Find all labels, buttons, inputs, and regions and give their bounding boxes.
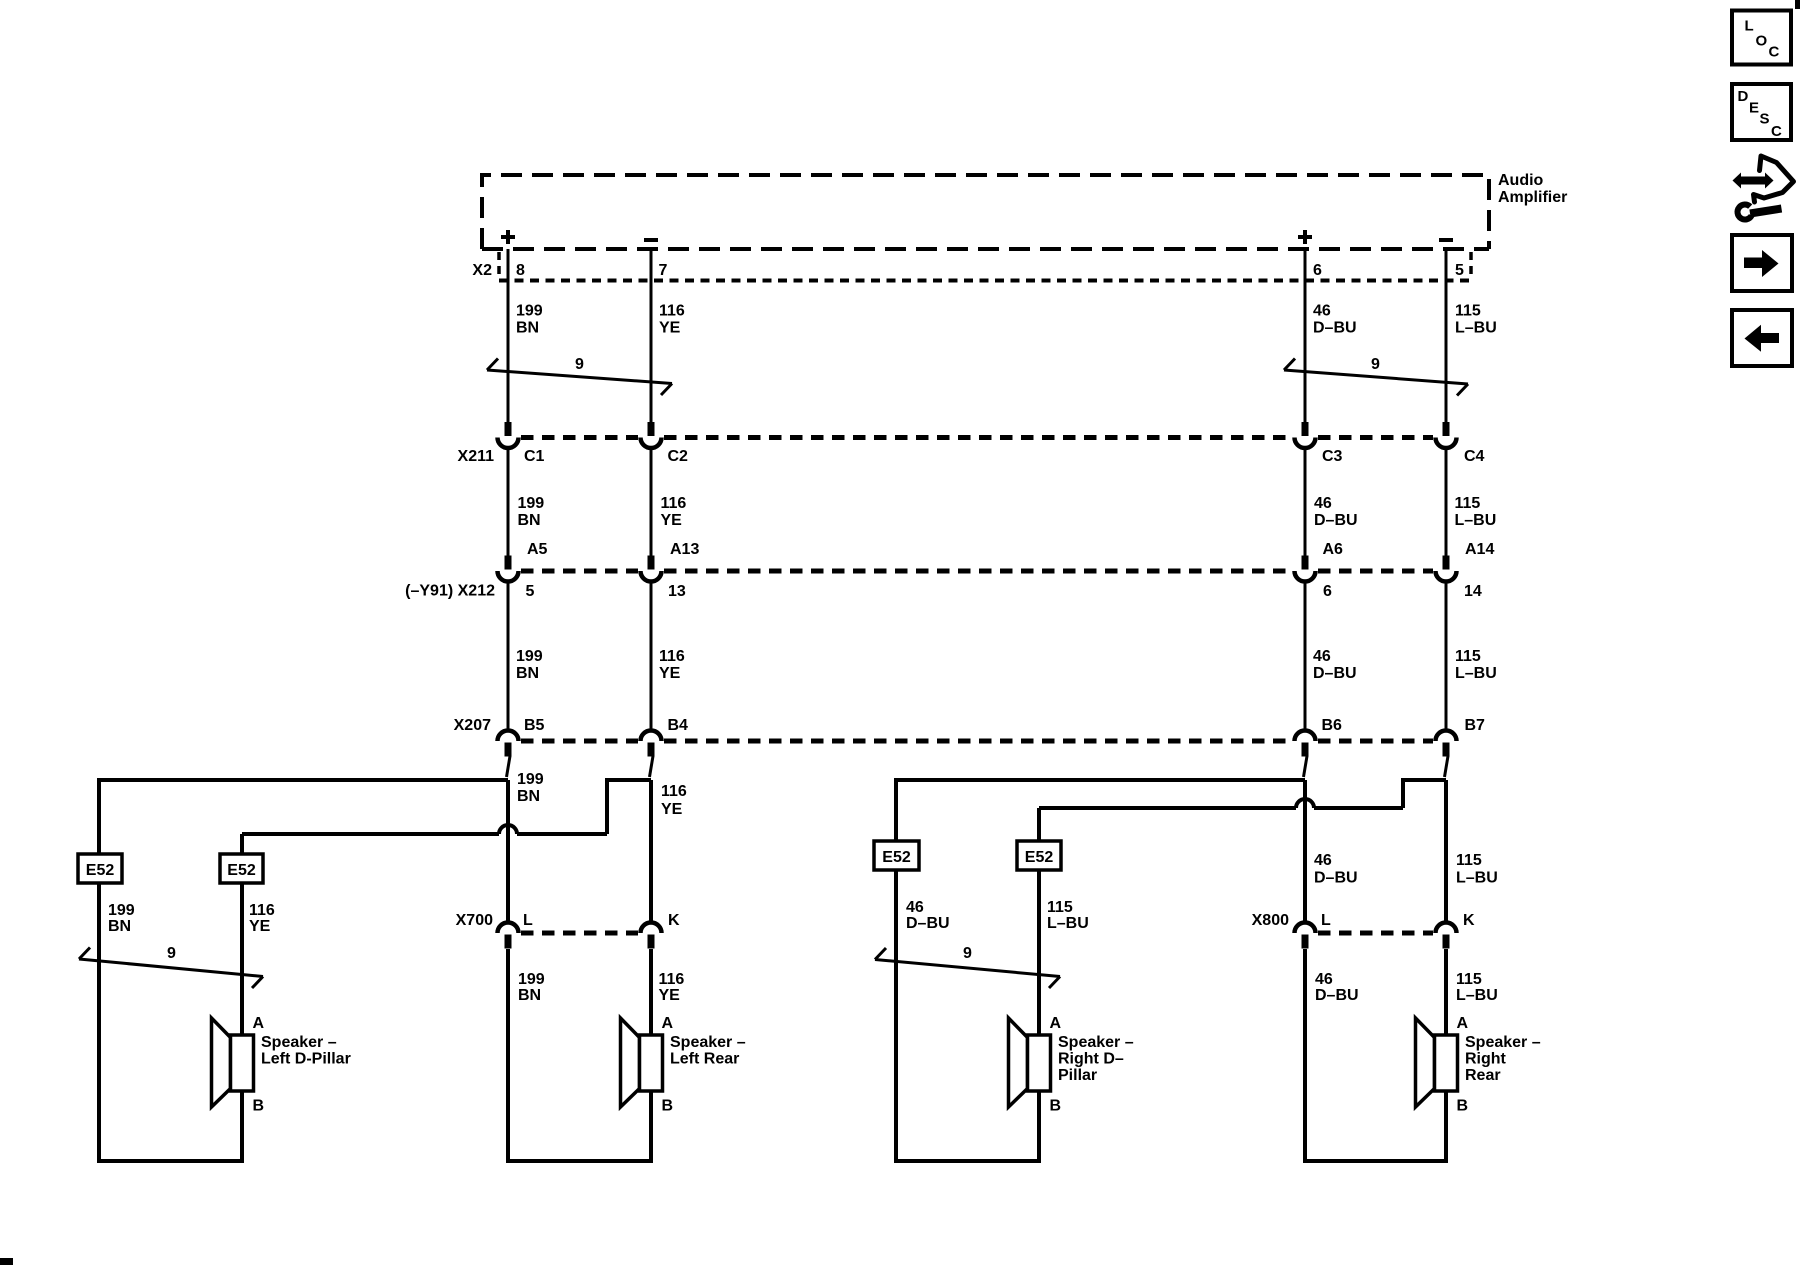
svg-text:L: L — [1745, 18, 1754, 35]
connector X2 — [472, 252, 1471, 281]
X212 terminal A6/6 — [1295, 541, 1344, 600]
svg-text:46: 46 — [1313, 648, 1331, 665]
svg-text:46: 46 — [1315, 971, 1333, 988]
svg-text:B6: B6 — [1322, 717, 1343, 734]
wire 116 YE segment X211 to X212 — [650, 449, 653, 557]
wire label 199 BN (X212-X207) — [516, 648, 543, 682]
wire label 46 D-BU (X211-X212) — [1314, 495, 1358, 529]
connector X207 — [454, 717, 1433, 741]
wire label 199 BN (below B5) — [517, 771, 544, 805]
svg-text:B7: B7 — [1465, 717, 1486, 734]
svg-text:116: 116 — [661, 495, 687, 512]
svg-text:115: 115 — [1455, 495, 1481, 512]
scan mark top right — [1795, 0, 1800, 9]
svg-text:D–BU: D–BU — [1313, 320, 1357, 337]
svg-text:199: 199 — [516, 303, 543, 320]
svg-text:Rear: Rear — [1465, 1067, 1501, 1084]
svg-text:9: 9 — [963, 945, 972, 962]
amplifier name label — [1498, 172, 1567, 206]
svg-text:C1: C1 — [524, 448, 545, 465]
plus terminal wire 8 — [501, 230, 515, 244]
svg-text:13: 13 — [668, 583, 686, 600]
svg-text:116: 116 — [659, 303, 685, 320]
connector X700 — [456, 912, 638, 933]
svg-text:BN: BN — [518, 512, 541, 529]
wire 199 BN vertical X207 to X700 — [506, 780, 510, 922]
svg-text:B: B — [1050, 1098, 1062, 1115]
svg-text:L: L — [523, 912, 533, 929]
svg-text:199: 199 — [108, 902, 135, 919]
svg-text:O: O — [1756, 33, 1768, 50]
wire label 116 YE (below X700) — [659, 971, 685, 1004]
wire label 46 D-BU (below B6) — [1314, 852, 1358, 887]
svg-text:B: B — [1457, 1098, 1469, 1115]
audio amplifier box — [482, 175, 1489, 249]
svg-text:L–BU: L–BU — [1456, 987, 1498, 1004]
X207 terminal B7 — [1436, 717, 1486, 757]
wire 46 D-BU segment X211 to X212 — [1304, 449, 1307, 557]
X207 terminal B4 — [641, 717, 689, 757]
wire 116 YE below X700 — [649, 949, 653, 1035]
wire 115 L-BU branch path — [1039, 778, 1446, 808]
svg-text:K: K — [1463, 912, 1475, 929]
grommet E52 right 115 L-BU — [1017, 841, 1061, 870]
wire label 199 BN (left grommet) — [108, 902, 135, 935]
wire label 46 D-BU (X212-X207) — [1313, 648, 1357, 682]
wire 199 BN segment X211 to X212 — [507, 449, 510, 557]
crossover hop 116 YE over 199 BN — [499, 825, 517, 834]
svg-text:YE: YE — [249, 918, 271, 935]
svg-text:116: 116 — [661, 783, 687, 800]
svg-text:D–BU: D–BU — [1314, 512, 1358, 529]
svg-text:A: A — [1457, 1015, 1469, 1032]
harness 9 arrow bottom left — [79, 945, 263, 988]
svg-text:Audio: Audio — [1498, 172, 1544, 189]
svg-text:199: 199 — [517, 771, 544, 788]
svg-text:Speaker –: Speaker – — [670, 1034, 746, 1051]
wire 199 BN segment amp to X211 — [507, 249, 510, 422]
svg-text:5: 5 — [526, 583, 535, 600]
svg-text:14: 14 — [1464, 583, 1482, 600]
svg-text:A6: A6 — [1323, 541, 1344, 558]
svg-text:B5: B5 — [524, 717, 545, 734]
speaker left D-pillar — [212, 1015, 351, 1115]
svg-text:A: A — [662, 1015, 674, 1032]
svg-text:46: 46 — [1313, 303, 1331, 320]
wire 46 D-BU vertical X207 to X800 — [1303, 780, 1307, 922]
svg-text:YE: YE — [659, 665, 681, 682]
wire label 116 YE (left grommet) — [249, 902, 275, 935]
svg-text:Left Rear: Left Rear — [670, 1051, 739, 1068]
plus terminal wire 6 — [1298, 230, 1312, 244]
svg-text:B: B — [253, 1098, 265, 1115]
wire label 115 L-BU (top) — [1455, 303, 1497, 337]
svg-text:6: 6 — [1323, 583, 1332, 600]
svg-text:E52: E52 — [227, 862, 256, 879]
X800 terminal L — [1295, 912, 1332, 949]
harness 9 arrow right top — [1284, 356, 1468, 396]
X800 terminal K — [1436, 912, 1476, 949]
svg-text:(–Y91) X212: (–Y91) X212 — [405, 583, 495, 600]
svg-text:9: 9 — [575, 356, 584, 373]
minus terminal wire 7 — [644, 238, 658, 242]
crossover hop 115 L-BU over 46 D-BU — [1296, 799, 1314, 808]
svg-text:46: 46 — [1314, 852, 1332, 869]
svg-text:YE: YE — [661, 801, 683, 818]
svg-text:X2: X2 — [472, 262, 492, 279]
svg-text:BN: BN — [518, 987, 541, 1004]
svg-text:D–BU: D–BU — [1314, 870, 1358, 887]
svg-text:Right D–: Right D– — [1058, 1051, 1124, 1068]
harness 9 arrow bottom right — [875, 945, 1060, 988]
svg-text:6: 6 — [1313, 262, 1322, 279]
svg-text:A14: A14 — [1465, 541, 1494, 558]
wire return loop left D-pillar speaker B — [97, 1091, 242, 1163]
wire 46 D-BU below X800 — [1303, 949, 1307, 1162]
X207 terminal B5 — [498, 717, 545, 757]
scan mark bottom left — [0, 1258, 13, 1265]
svg-text:B: B — [662, 1098, 674, 1115]
wire jog below B6 — [1304, 756, 1308, 777]
svg-text:Right: Right — [1465, 1051, 1507, 1068]
wire label 116 YE (top) — [659, 303, 685, 337]
svg-text:E52: E52 — [1025, 849, 1054, 866]
svg-text:L–BU: L–BU — [1047, 915, 1089, 932]
svg-text:L–BU: L–BU — [1456, 870, 1498, 887]
wire return loop right rear speaker B — [1303, 1091, 1446, 1163]
svg-text:D–BU: D–BU — [906, 915, 950, 932]
X212 terminal A13/13 — [641, 541, 700, 600]
svg-text:YE: YE — [659, 320, 681, 337]
svg-text:S: S — [1760, 111, 1770, 128]
X700 terminal K — [641, 912, 681, 949]
wire 116 YE vertical X207 to X700 — [649, 780, 653, 922]
wire label 46 D-BU (below X800) — [1315, 971, 1359, 1004]
speaker right D-pillar — [1009, 1015, 1134, 1115]
svg-text:115: 115 — [1047, 899, 1073, 916]
wire label 199 BN (below X700) — [518, 971, 545, 1004]
svg-text:Pillar: Pillar — [1058, 1067, 1097, 1084]
wire label 115 L-BU (right grommet) — [1047, 899, 1089, 932]
X211 terminal C1 — [498, 422, 545, 465]
X207 terminal B6 — [1295, 717, 1343, 757]
icon wrench with arrows — [1733, 156, 1794, 220]
svg-text:C4: C4 — [1464, 448, 1485, 465]
harness 9 arrow left top — [487, 356, 672, 395]
svg-text:K: K — [668, 912, 680, 929]
icon arrow left box — [1732, 310, 1792, 366]
svg-text:9: 9 — [167, 945, 176, 962]
svg-text:BN: BN — [517, 788, 540, 805]
wire 46 D-BU segment X212 to X207 — [1304, 582, 1307, 731]
svg-text:5: 5 — [1455, 262, 1464, 279]
wire 115 L-BU below X800 — [1444, 949, 1448, 1035]
svg-text:C2: C2 — [668, 448, 689, 465]
svg-text:115: 115 — [1455, 648, 1481, 665]
wire 115 L-BU segment amp to X211 — [1445, 249, 1448, 422]
wire return loop left rear speaker B — [506, 1091, 651, 1163]
wire 115 L-BU segment X212 to X207 — [1445, 582, 1448, 731]
svg-text:X800: X800 — [1252, 912, 1289, 929]
wire label 116 YE (X211-X212) — [661, 495, 687, 529]
X700 terminal L — [498, 912, 534, 949]
svg-text:Speaker –: Speaker – — [261, 1034, 337, 1051]
svg-text:Amplifier: Amplifier — [1498, 189, 1567, 206]
svg-text:Speaker –: Speaker – — [1465, 1034, 1541, 1051]
wire 199 BN branch to left grommet — [99, 778, 508, 1162]
svg-text:199: 199 — [518, 495, 545, 512]
wire 116 YE segment X212 to X207 — [650, 582, 653, 731]
wire label 46 D-BU (top) — [1313, 303, 1357, 337]
svg-text:C: C — [1771, 123, 1782, 140]
wire label 115 L-BU (below X800) — [1456, 971, 1498, 1004]
wire 199 BN below X700 — [506, 949, 510, 1162]
svg-text:YE: YE — [659, 987, 681, 1004]
svg-text:BN: BN — [108, 918, 131, 935]
wire 199 BN segment X212 to X207 — [507, 582, 510, 731]
wire label 116 YE (below B4) — [661, 783, 687, 818]
svg-text:9: 9 — [1371, 356, 1380, 373]
connector X212 (-Y91) — [405, 571, 1433, 600]
svg-text:BN: BN — [516, 665, 539, 682]
svg-text:A5: A5 — [527, 541, 548, 558]
wire 115 L-BU vertical X207 to X800 — [1444, 780, 1448, 922]
svg-text:115: 115 — [1455, 303, 1481, 320]
wire 116 YE drop to left D-pillar speaker — [240, 834, 244, 1035]
svg-text:46: 46 — [906, 899, 924, 916]
svg-text:D–BU: D–BU — [1313, 665, 1357, 682]
svg-text:7: 7 — [659, 262, 668, 279]
svg-text:116: 116 — [249, 902, 275, 919]
X212 terminal A14/14 — [1436, 541, 1495, 600]
connector X800 — [1252, 912, 1433, 933]
X211 terminal C3 — [1295, 422, 1343, 465]
svg-text:C3: C3 — [1322, 448, 1343, 465]
svg-text:E: E — [1749, 100, 1759, 117]
wire jog below B4 — [650, 756, 654, 777]
minus terminal wire 5 — [1439, 238, 1453, 242]
svg-text:X207: X207 — [454, 717, 491, 734]
X212 terminal A5/5 — [498, 541, 548, 600]
svg-text:A13: A13 — [670, 541, 699, 558]
wire 115 L-BU segment X211 to X212 — [1445, 449, 1448, 557]
svg-text:X700: X700 — [456, 912, 493, 929]
svg-text:E52: E52 — [86, 862, 115, 879]
svg-text:115: 115 — [1456, 971, 1482, 988]
svg-text:L–BU: L–BU — [1455, 512, 1497, 529]
wire return loop right D-pillar speaker B — [894, 1091, 1039, 1163]
svg-text:C: C — [1769, 44, 1780, 61]
speaker right rear — [1416, 1015, 1541, 1115]
svg-text:BN: BN — [516, 320, 539, 337]
wire jog below B5 — [507, 756, 511, 777]
svg-text:YE: YE — [661, 512, 683, 529]
wire jog below B7 — [1445, 756, 1449, 777]
grommet E52 left 116 YE — [220, 854, 263, 883]
svg-text:D: D — [1738, 88, 1749, 105]
svg-text:115: 115 — [1456, 852, 1482, 869]
svg-text:Left D-Pillar: Left D-Pillar — [261, 1051, 351, 1068]
svg-text:B4: B4 — [668, 717, 689, 734]
svg-text:116: 116 — [659, 648, 685, 665]
speaker left rear — [621, 1015, 746, 1115]
connector X211 — [458, 438, 1433, 466]
svg-text:8: 8 — [516, 262, 525, 279]
icon DESC box — [1732, 84, 1791, 140]
svg-text:A: A — [253, 1015, 265, 1032]
wire label 116 YE (X212-X207) — [659, 648, 685, 682]
wire label 199 BN (X211-X212) — [518, 495, 545, 529]
wire label 199 BN (top) — [516, 303, 543, 337]
svg-text:L–BU: L–BU — [1455, 320, 1497, 337]
svg-text:116: 116 — [659, 971, 685, 988]
svg-text:46: 46 — [1314, 495, 1332, 512]
grommet E52 right 46 D-BU — [874, 841, 919, 870]
wire 116 YE branch path — [242, 778, 651, 834]
icon arrow right box — [1732, 235, 1792, 291]
svg-text:L–BU: L–BU — [1455, 665, 1497, 682]
wire 46 D-BU branch to right grommet — [896, 778, 1305, 1162]
wire 46 D-BU segment amp to X211 — [1304, 249, 1307, 422]
svg-text:199: 199 — [516, 648, 543, 665]
svg-text:L: L — [1321, 912, 1331, 929]
svg-text:Speaker –: Speaker – — [1058, 1034, 1134, 1051]
svg-text:A: A — [1050, 1015, 1062, 1032]
wire label 115 L-BU (X212-X207) — [1455, 648, 1497, 682]
wire label 115 L-BU (below B7) — [1456, 852, 1498, 887]
svg-text:E52: E52 — [882, 849, 911, 866]
svg-text:D–BU: D–BU — [1315, 987, 1359, 1004]
wire 116 YE segment amp to X211 — [650, 249, 653, 422]
svg-text:199: 199 — [518, 971, 545, 988]
X211 terminal C2 — [641, 422, 689, 465]
grommet E52 left 199 BN — [78, 854, 122, 883]
wire 115 L-BU drop to right D-pillar speaker — [1037, 808, 1041, 1035]
wire label 115 L-BU (X211-X212) — [1455, 495, 1497, 529]
icon LOC box — [1732, 11, 1791, 65]
X211 terminal C4 — [1436, 422, 1485, 465]
svg-text:X211: X211 — [458, 448, 495, 465]
wire label 46 D-BU (right grommet) — [906, 899, 950, 932]
